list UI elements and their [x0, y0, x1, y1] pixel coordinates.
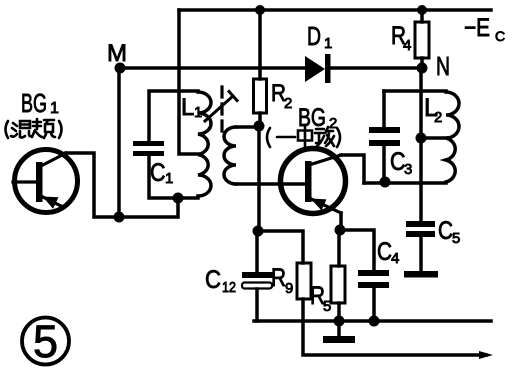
junction C4 bottom	[369, 316, 380, 327]
svg-text:1: 1	[50, 100, 59, 117]
inductor L1 secondary	[236, 125, 257, 129]
svg-text:1: 1	[194, 104, 202, 121]
svg-text:5: 5	[323, 298, 331, 315]
svg-text:1: 1	[165, 170, 173, 187]
inductor L1 primary	[198, 92, 211, 196]
capacitor C1	[133, 141, 164, 146]
figure number 5	[22, 318, 69, 365]
svg-text:5: 5	[452, 230, 460, 247]
trimmer adjustment arrow	[220, 87, 223, 131]
junction tank1 bottom	[173, 193, 184, 204]
svg-text:D: D	[307, 21, 321, 51]
svg-text:1: 1	[324, 35, 332, 52]
wire output line	[303, 321, 486, 355]
svg-text:N: N	[436, 51, 450, 81]
tank1 loop wiring	[149, 91, 198, 141]
capacitor C3	[369, 127, 400, 133]
node N	[417, 63, 428, 74]
wire bottom rail	[254, 319, 491, 323]
wire bias vertical	[257, 126, 261, 231]
inductor L2	[446, 92, 459, 182]
ground bar below C5	[404, 271, 438, 278]
svg-text:4: 4	[391, 250, 399, 267]
svg-text:C: C	[438, 217, 453, 245]
wire BG1 collector to tank bottom	[66, 153, 178, 217]
diode D1	[305, 56, 325, 82]
wire bias node to R9	[258, 231, 303, 263]
svg-text:3: 3	[404, 161, 412, 178]
svg-text:M: M	[107, 40, 127, 67]
resistor R5	[337, 231, 341, 321]
svg-text:4: 4	[403, 37, 411, 54]
svg-text:C: C	[205, 266, 221, 294]
junction R5 bottom	[334, 316, 345, 327]
svg-text:2: 2	[284, 95, 292, 112]
wire vertical from top rail to L1 tap	[179, 10, 198, 154]
svg-text:C: C	[150, 159, 166, 187]
capacitor C4	[358, 270, 389, 276]
tank2 loop wiring	[384, 89, 446, 93]
junction R2 / coil top	[254, 121, 265, 132]
svg-text:2: 2	[329, 115, 337, 132]
resistor R4	[420, 10, 424, 68]
svg-text:C: C	[495, 28, 505, 44]
svg-text:−E: −E	[464, 14, 490, 42]
label (混频) mixer	[6, 119, 62, 138]
junction top rail / R2	[255, 5, 265, 15]
resistor R2	[258, 10, 262, 126]
svg-text:C: C	[377, 238, 392, 266]
svg-text:BG: BG	[21, 88, 47, 118]
transistor Q1 BG1	[15, 150, 78, 213]
svg-text:R: R	[271, 264, 286, 292]
junction M line / emitter line	[114, 212, 125, 223]
svg-text:5: 5	[33, 316, 58, 367]
wire tank2 bottom / collector	[364, 181, 446, 185]
ground below R5	[337, 321, 341, 336]
wire M horizontal to diode anode	[119, 66, 305, 70]
svg-text:9: 9	[285, 280, 293, 297]
node M	[115, 63, 126, 74]
wire emitter node to C4	[340, 230, 374, 270]
capacitor C12	[255, 231, 259, 321]
transistor Q2 BG2	[281, 149, 346, 214]
label (一中放) first IF amp	[267, 126, 340, 147]
wire M vertical down	[117, 68, 121, 217]
junction C3 bottom / collector line	[380, 177, 391, 188]
capacitor C5	[406, 221, 435, 227]
wire top supply rail	[179, 8, 491, 12]
junction BG2 emitter	[335, 225, 346, 236]
resistor R9	[297, 263, 311, 299]
junction top rail / R4	[417, 5, 427, 15]
junction bias/R9 node	[253, 226, 264, 237]
svg-text:L: L	[181, 94, 194, 121]
wire N vertical	[419, 68, 423, 221]
svg-text:2: 2	[434, 109, 442, 126]
svg-text:12: 12	[222, 279, 236, 296]
